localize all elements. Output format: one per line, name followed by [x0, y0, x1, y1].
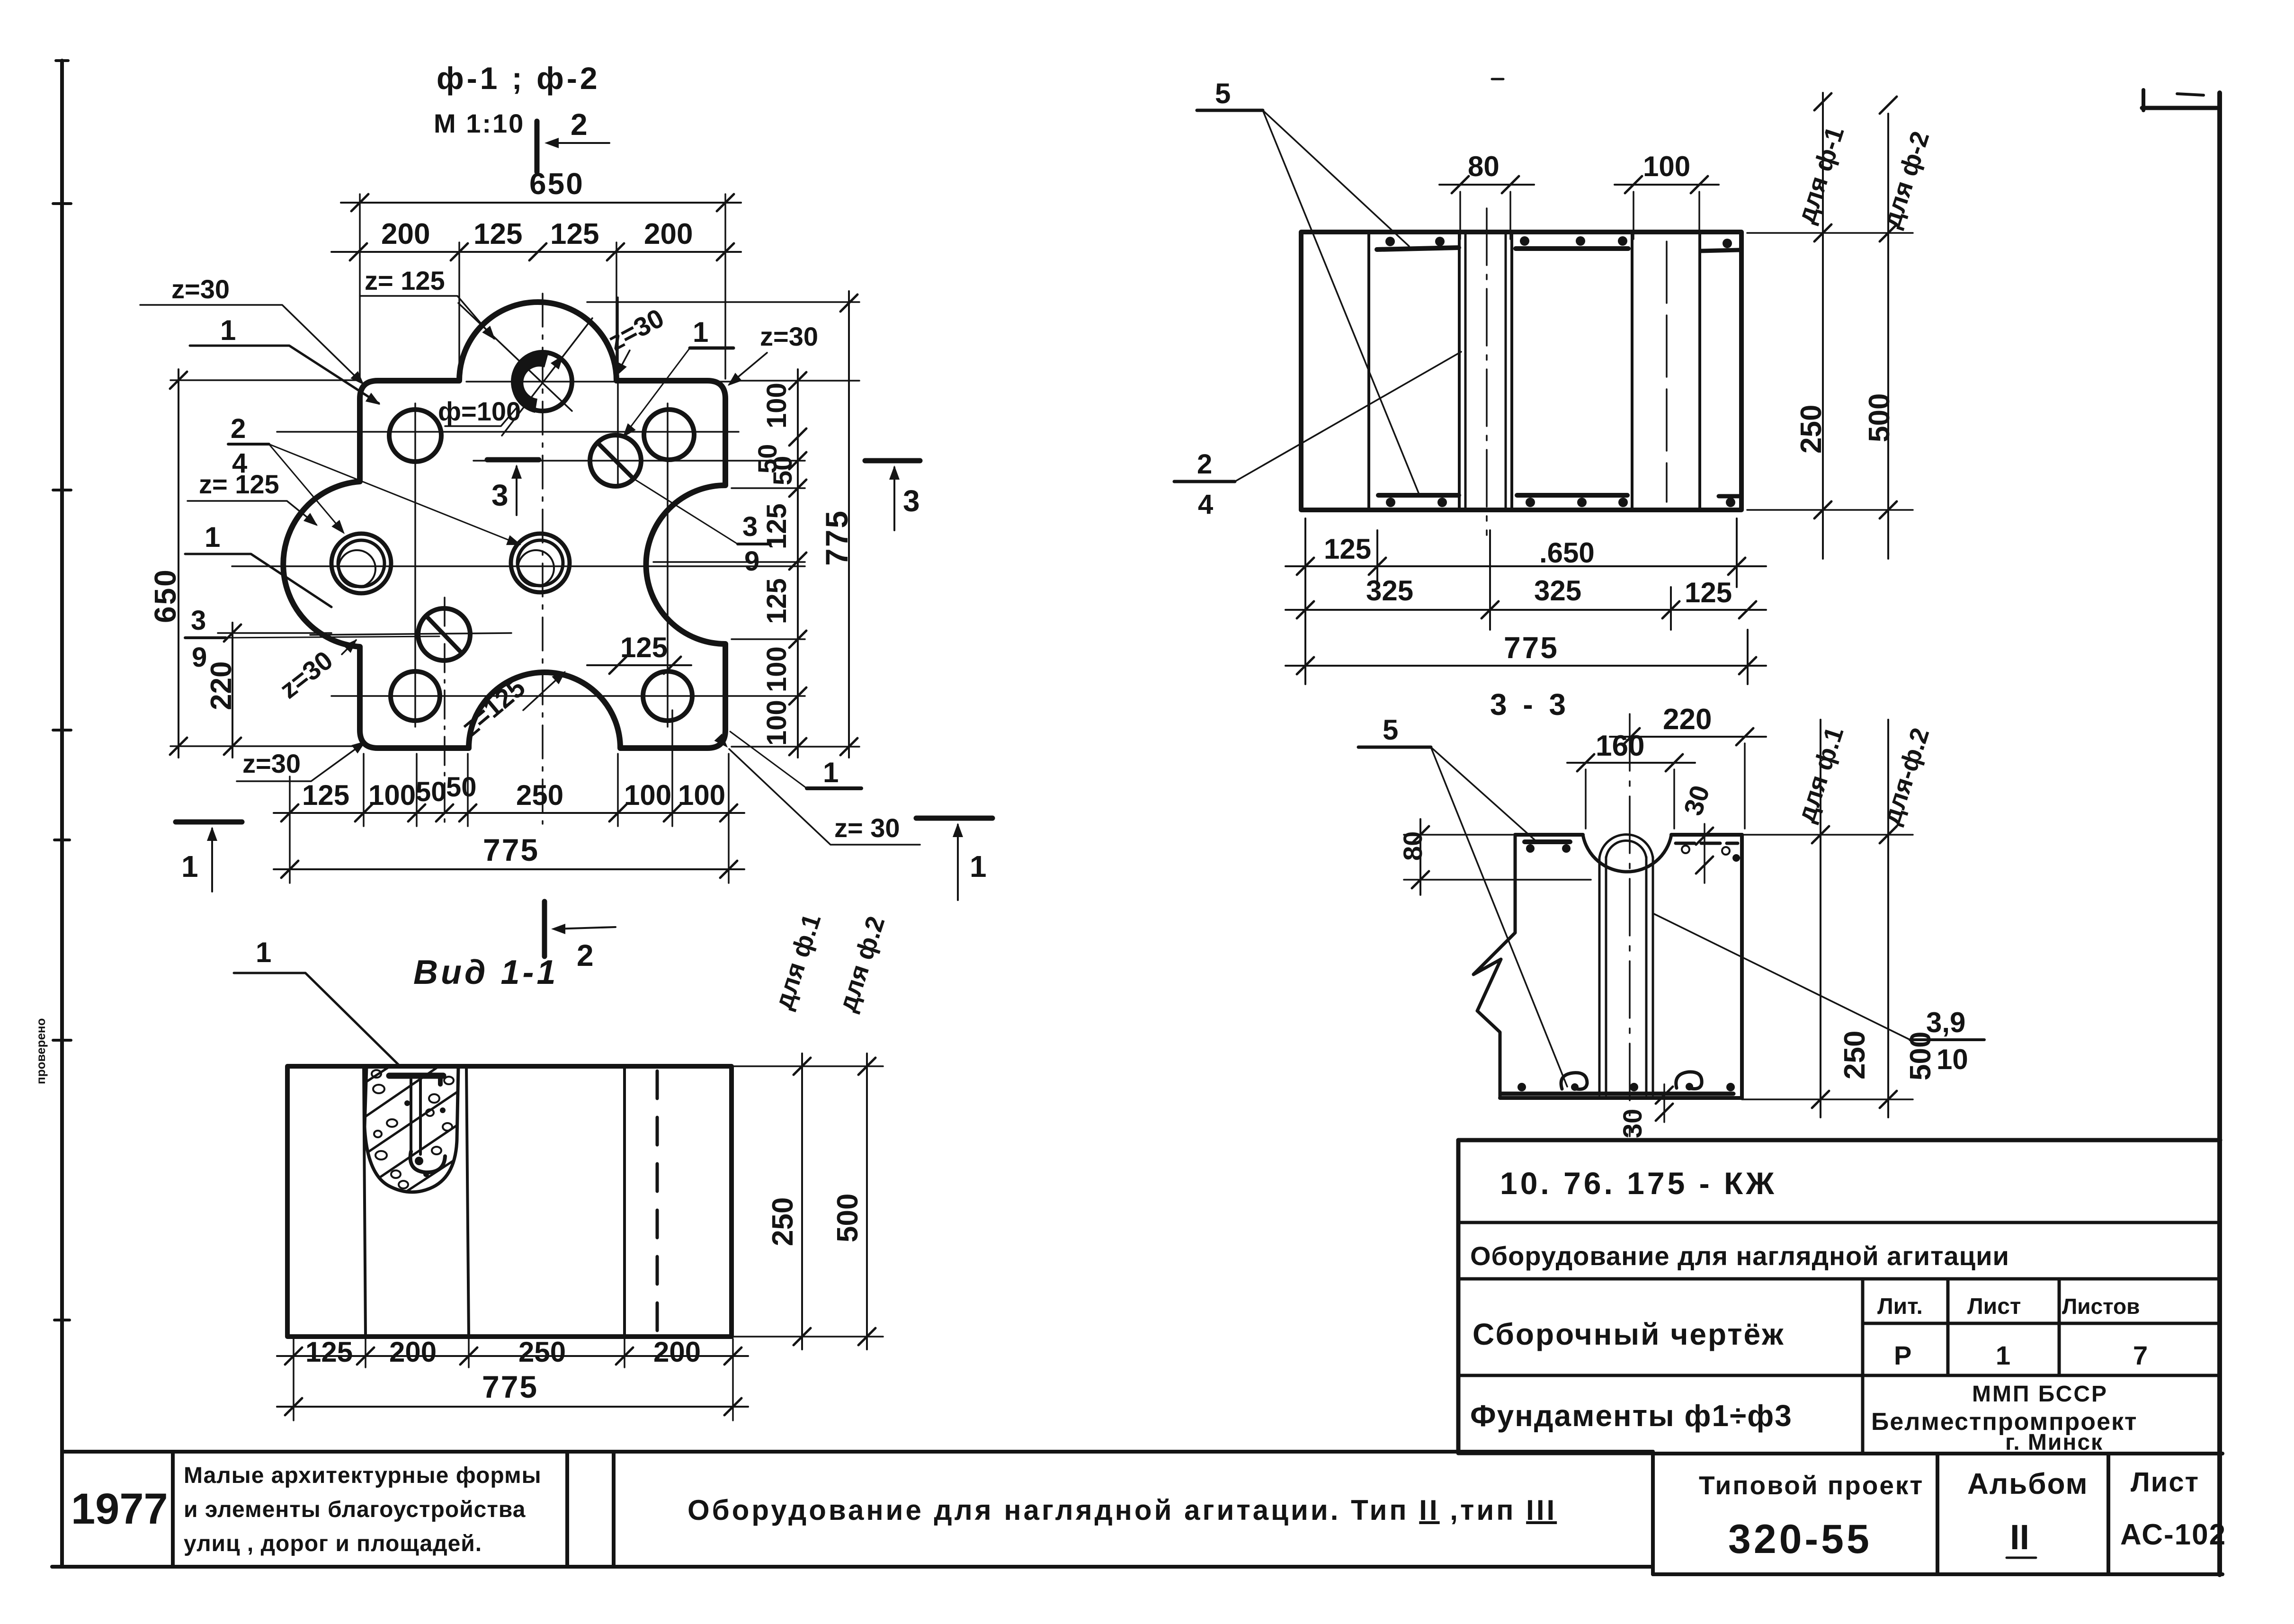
- svg-text:z= 125: z= 125: [365, 266, 445, 295]
- block left edge with break zigzag: [1473, 835, 1515, 1098]
- svg-text:775: 775: [482, 1369, 538, 1404]
- svg-text:1977: 1977: [71, 1485, 168, 1533]
- bottom rebar bar left: [1378, 493, 1459, 498]
- svg-text:200: 200: [653, 1336, 701, 1368]
- svg-text:Альбом: Альбом: [1967, 1468, 2089, 1500]
- hole (1410,920): [644, 410, 694, 460]
- dim 250 (for ф.1): [801, 1053, 803, 1349]
- inner double line left of centre: [1458, 232, 1461, 510]
- svg-text:125: 125: [620, 632, 668, 663]
- right extension lines: [587, 302, 859, 747]
- dim chain 325 325 125: [1285, 609, 1766, 611]
- inner vertical line b: [466, 1066, 469, 1337]
- top rebar bar right: [1701, 250, 1739, 251]
- U-loop top bend double arc: [1599, 835, 1653, 858]
- svg-text:250: 250: [1795, 405, 1828, 454]
- top mesh left bar: [1525, 839, 1570, 844]
- svg-text:z=125: z=125: [455, 672, 531, 742]
- horizontal centerline slash hole row: [310, 633, 511, 635]
- block top surface left part: [1515, 833, 1583, 837]
- svg-text:ф=100: ф=100: [438, 396, 521, 426]
- svg-text:30: 30: [1678, 782, 1715, 819]
- top mesh right bar: [1676, 842, 1738, 845]
- centerline vertical col slash hole: [444, 598, 446, 826]
- svg-text:125: 125: [1324, 533, 1371, 565]
- svg-text:z=30: z=30: [242, 749, 301, 778]
- section marker 2 (top): [537, 107, 609, 172]
- svg-text:100: 100: [624, 779, 671, 811]
- svg-text:для ф-1: для ф-1: [1792, 123, 1849, 227]
- inner vertical line a: [364, 1066, 366, 1337]
- svg-text:Типовой проект: Типовой проект: [1699, 1471, 1924, 1500]
- svg-text:Малые архитектурные формы: Малые архитектурные формы: [184, 1463, 542, 1488]
- dim chain 125 100 50 50 250 100 100 (bottom): [274, 812, 744, 814]
- centerline vertical main (dash-dot): [542, 294, 544, 824]
- svg-text:для ф.1: для ф.1: [1792, 723, 1849, 826]
- svg-text:500: 500: [1863, 393, 1896, 442]
- hole (877,1470): [391, 671, 440, 721]
- section marker 3 (right): [865, 461, 920, 530]
- bottom extension lines: [290, 710, 729, 883]
- svg-text:М 1:10: М 1:10: [434, 108, 525, 138]
- plate outline (jigsaw shaped foundation plate): [283, 302, 725, 748]
- dim chain 125 650: [1285, 565, 1766, 567]
- bottom rebar bar right: [1719, 494, 1739, 499]
- svg-text:ф-1 ; ф-2: ф-1 ; ф-2: [437, 61, 600, 96]
- svg-text:200: 200: [389, 1336, 437, 1368]
- dim 650 (top overall): [341, 202, 741, 204]
- dim 775 overall: [277, 1406, 748, 1408]
- svg-text:Лист: Лист: [2131, 1467, 2199, 1498]
- svg-text:220: 220: [205, 661, 238, 710]
- svg-text:50: 50: [768, 456, 797, 485]
- centerline vertical col D: [667, 403, 669, 727]
- dim chain 125 200 250 200: [277, 1355, 748, 1357]
- dim chain 200 125 125 200: [331, 251, 741, 253]
- anchor stem double line: [410, 1080, 412, 1154]
- bottom extension lines: [1305, 518, 1748, 684]
- pocket aggregate circles: [372, 1070, 454, 1188]
- svg-text:5: 5: [1215, 78, 1231, 109]
- svg-text:для ф.1: для ф.1: [769, 910, 826, 1013]
- svg-text:250: 250: [516, 779, 563, 811]
- svg-text:1: 1: [205, 521, 220, 553]
- hole (877,920): [389, 410, 441, 462]
- bottom strip right cells: [1653, 1452, 2223, 1574]
- svg-text:100: 100: [761, 700, 792, 746]
- svg-text:30: 30: [1617, 1109, 1647, 1138]
- svg-text:2: 2: [577, 938, 594, 973]
- hole (1410,1470): [643, 671, 692, 721]
- svg-text:125: 125: [302, 779, 349, 811]
- svg-text:100: 100: [678, 779, 725, 811]
- top rebar bar middle: [1516, 246, 1628, 251]
- svg-text:160: 160: [1596, 730, 1644, 762]
- centerline vertical col A: [414, 403, 416, 727]
- svg-text:Р: Р: [1894, 1340, 1911, 1370]
- dim 80 (recess depth): [1404, 834, 1513, 836]
- svg-text:100: 100: [368, 779, 416, 811]
- svg-text:125: 125: [1685, 577, 1732, 608]
- body rectangle: [287, 1066, 732, 1337]
- svg-text:500: 500: [831, 1194, 864, 1242]
- svg-text:325: 325: [1366, 575, 1413, 607]
- dim 775 (bottom overall): [274, 868, 744, 870]
- svg-text:1: 1: [256, 937, 271, 968]
- svg-text:2: 2: [571, 107, 588, 142]
- svg-text:775: 775: [1504, 631, 1559, 665]
- hole with slash (1302,950): [590, 435, 641, 486]
- diameter arrow line through top hole: [502, 318, 592, 436]
- centre dash-dot line: [1486, 208, 1488, 535]
- svg-text:650: 650: [529, 167, 584, 201]
- svg-text:250: 250: [518, 1336, 566, 1368]
- bottom strip left box: [52, 1452, 1653, 1567]
- body rectangle: [1301, 232, 1741, 510]
- block right edge: [1740, 835, 1744, 1098]
- svg-text:1: 1: [970, 849, 987, 883]
- svg-text:Фундаменты ф1÷ф3: Фундаменты ф1÷ф3: [1470, 1399, 1793, 1433]
- svg-text:z= 30: z= 30: [834, 813, 900, 843]
- right extension lines: [734, 1066, 883, 1337]
- svg-text:Оборудование для наглядной аги: Оборудование для наглядной агитации: [1470, 1241, 2009, 1271]
- inner vertical line 3: [1698, 232, 1701, 510]
- svg-text:250: 250: [1839, 1031, 1871, 1080]
- svg-text:125: 125: [761, 503, 792, 549]
- svg-text:z=30: z=30: [603, 303, 669, 356]
- svg-text:Оборудование для наглядной аги: Оборудование для наглядной агитации. Тип…: [687, 1494, 1557, 1526]
- svg-text:для ф.2: для ф.2: [833, 913, 890, 1015]
- top extension lines: [360, 194, 725, 379]
- thin chord extension line across bump: [466, 381, 732, 383]
- faint erased title mark: [1492, 78, 1503, 80]
- svg-text:125: 125: [761, 578, 792, 624]
- U-loop rebar right leg double line: [1645, 857, 1648, 1095]
- svg-text:для-ф.2: для-ф.2: [1877, 724, 1935, 828]
- svg-text:100: 100: [761, 383, 792, 428]
- dim 650 (left overall): [178, 369, 179, 758]
- svg-text:z=30: z=30: [760, 321, 818, 351]
- svg-text:50: 50: [446, 772, 477, 803]
- section marker 1 (left): [176, 822, 242, 892]
- svg-text:325: 325: [1534, 575, 1581, 607]
- svg-text:100: 100: [1643, 151, 1690, 182]
- svg-text:1: 1: [823, 757, 839, 788]
- svg-text:АС-102: АС-102: [2120, 1518, 2226, 1551]
- title block outer frame: [1458, 1140, 2220, 1453]
- bottom extension lines: [294, 1339, 733, 1420]
- hole at top bump centre with dark crescent: [513, 352, 572, 411]
- svg-text:3: 3: [191, 605, 206, 636]
- block bottom edge with thin extension: [1500, 1096, 1742, 1100]
- dim 30 (bottom cover) rotated: [1663, 1084, 1665, 1122]
- top rebar bar left: [1377, 248, 1459, 250]
- hole with slash (939,1326): [418, 608, 470, 660]
- horizontal centerline row 1: [277, 431, 739, 433]
- bottom rebar hook right: [1676, 1072, 1702, 1089]
- svg-text:Лист: Лист: [1967, 1294, 2021, 1319]
- svg-text:Вид 1-1: Вид 1-1: [413, 954, 559, 991]
- svg-text:1: 1: [1996, 1340, 2010, 1370]
- svg-text:200: 200: [644, 218, 693, 250]
- svg-text:Листов: Листов: [2062, 1294, 2140, 1319]
- svg-text:Лит.: Лит.: [1877, 1294, 1923, 1319]
- svg-text:125: 125: [305, 1336, 353, 1368]
- dim 80 (top): [1439, 184, 1534, 186]
- dim 125 (inner, right notch): [587, 664, 691, 666]
- centreline of right opening: [1666, 241, 1668, 502]
- svg-text:250: 250: [767, 1197, 799, 1246]
- horizontal centerline middle row: [232, 565, 805, 567]
- title block row lines: [1458, 1222, 2220, 1453]
- svg-text:и элементы благоустройства: и элементы благоустройства: [184, 1497, 526, 1522]
- svg-text:80: 80: [1468, 151, 1500, 182]
- centre dash-dot line: [1629, 714, 1631, 1136]
- svg-text:220: 220: [1663, 703, 1712, 736]
- recess semicircle: [1583, 835, 1671, 872]
- svg-text:z= 125: z= 125: [199, 469, 279, 499]
- anchor bottom hook: [411, 1151, 445, 1172]
- svg-text:1: 1: [220, 314, 236, 346]
- svg-text:320-55: 320-55: [1728, 1517, 1872, 1562]
- right vertical dim lines: [1822, 93, 1824, 559]
- sheet right border line: [2217, 93, 2222, 1575]
- svg-text:7: 7: [2133, 1340, 2148, 1370]
- svg-text:10: 10: [1937, 1044, 1968, 1075]
- double-ring hole left (766,1205): [331, 534, 391, 593]
- dim 775 overall: [1285, 665, 1766, 667]
- sheet left border line: [60, 61, 64, 1566]
- svg-text:z=30: z=30: [274, 645, 339, 704]
- bottom mesh bar: [1501, 1092, 1733, 1096]
- svg-text:3: 3: [742, 511, 758, 542]
- inner double line right of centre: [1505, 232, 1507, 510]
- svg-text:z=30: z=30: [171, 274, 230, 304]
- svg-text:ММП БССР: ММП БССР: [1972, 1382, 2108, 1407]
- svg-text:проверено: проверено: [34, 1018, 48, 1085]
- svg-text:3: 3: [903, 484, 920, 518]
- top-right corner bracket: [2142, 106, 2220, 110]
- svg-text:3 - 3: 3 - 3: [1490, 687, 1570, 722]
- bottom rebar bar middle: [1517, 493, 1627, 498]
- svg-text:50: 50: [416, 776, 446, 807]
- left extension lines: [170, 380, 360, 746]
- svg-text:125: 125: [550, 218, 599, 250]
- svg-text:200: 200: [381, 218, 430, 250]
- inner vertical line 1: [1367, 232, 1370, 510]
- bottom rebar hook left: [1561, 1073, 1587, 1089]
- svg-text:2: 2: [1197, 449, 1212, 480]
- inner vertical line c: [623, 1066, 626, 1337]
- section marker 3 (middle): [487, 460, 539, 515]
- svg-text:775: 775: [483, 832, 539, 867]
- dim 220 (left): [232, 623, 233, 758]
- horizontal centerline bottom row: [331, 695, 805, 697]
- svg-text:для ф-2: для ф-2: [1877, 128, 1935, 232]
- svg-text:100: 100: [761, 646, 792, 692]
- svg-text:5: 5: [1383, 714, 1398, 746]
- svg-text:2: 2: [231, 413, 246, 444]
- U-loop rebar left leg double line: [1598, 857, 1601, 1095]
- svg-text:Сборочный чертёж: Сборочный чертёж: [1473, 1317, 1785, 1351]
- section marker 2 (bottom, above Vid 1-1): [544, 901, 616, 973]
- svg-text:80: 80: [1398, 831, 1428, 861]
- right vertical dim lines 250 500: [1820, 720, 1821, 1117]
- dim chain 100 50 50 125 125 100 100 (right): [797, 369, 799, 758]
- anchor T-head: [389, 1073, 443, 1079]
- dashed hidden line: [656, 1071, 659, 1334]
- block top surface right part with thin extension: [1671, 833, 1742, 837]
- left border ruler tick marks: [53, 61, 71, 1320]
- dim 160: [1567, 762, 1695, 764]
- svg-text:125: 125: [473, 218, 522, 250]
- svg-text:г. Минск: г. Минск: [2005, 1430, 2103, 1455]
- svg-text:1: 1: [181, 849, 198, 883]
- section marker 1 (right): [916, 818, 992, 900]
- svg-text:775: 775: [819, 509, 854, 566]
- centerline vertical col C: [617, 297, 619, 484]
- svg-text:улиц , дорог и площадей.: улиц , дорог и площадей.: [184, 1531, 482, 1556]
- dim 775 (right overall): [848, 291, 850, 758]
- inner vertical line 2: [1631, 232, 1633, 510]
- svg-text:1: 1: [693, 316, 708, 348]
- anchor pocket outline: [365, 1067, 458, 1192]
- svg-text:3: 3: [491, 478, 509, 512]
- svg-text:II: II: [2010, 1517, 2029, 1557]
- svg-text:650: 650: [148, 568, 182, 623]
- dim 220: [1610, 736, 1766, 738]
- svg-text:4: 4: [1198, 489, 1213, 520]
- svg-text:.650: .650: [1539, 537, 1595, 569]
- double-ring hole centre (1139,1205): [511, 534, 570, 592]
- horizontal centerline row 1b: [473, 460, 805, 462]
- pocket hatching: [348, 1058, 464, 1205]
- svg-text:3,9: 3,9: [1926, 1007, 1965, 1038]
- dim 100 (top): [1615, 184, 1719, 186]
- svg-text:10. 76. 175 - КЖ: 10. 76. 175 - КЖ: [1500, 1166, 1777, 1201]
- dim 500 (for ф.2): [866, 1053, 868, 1349]
